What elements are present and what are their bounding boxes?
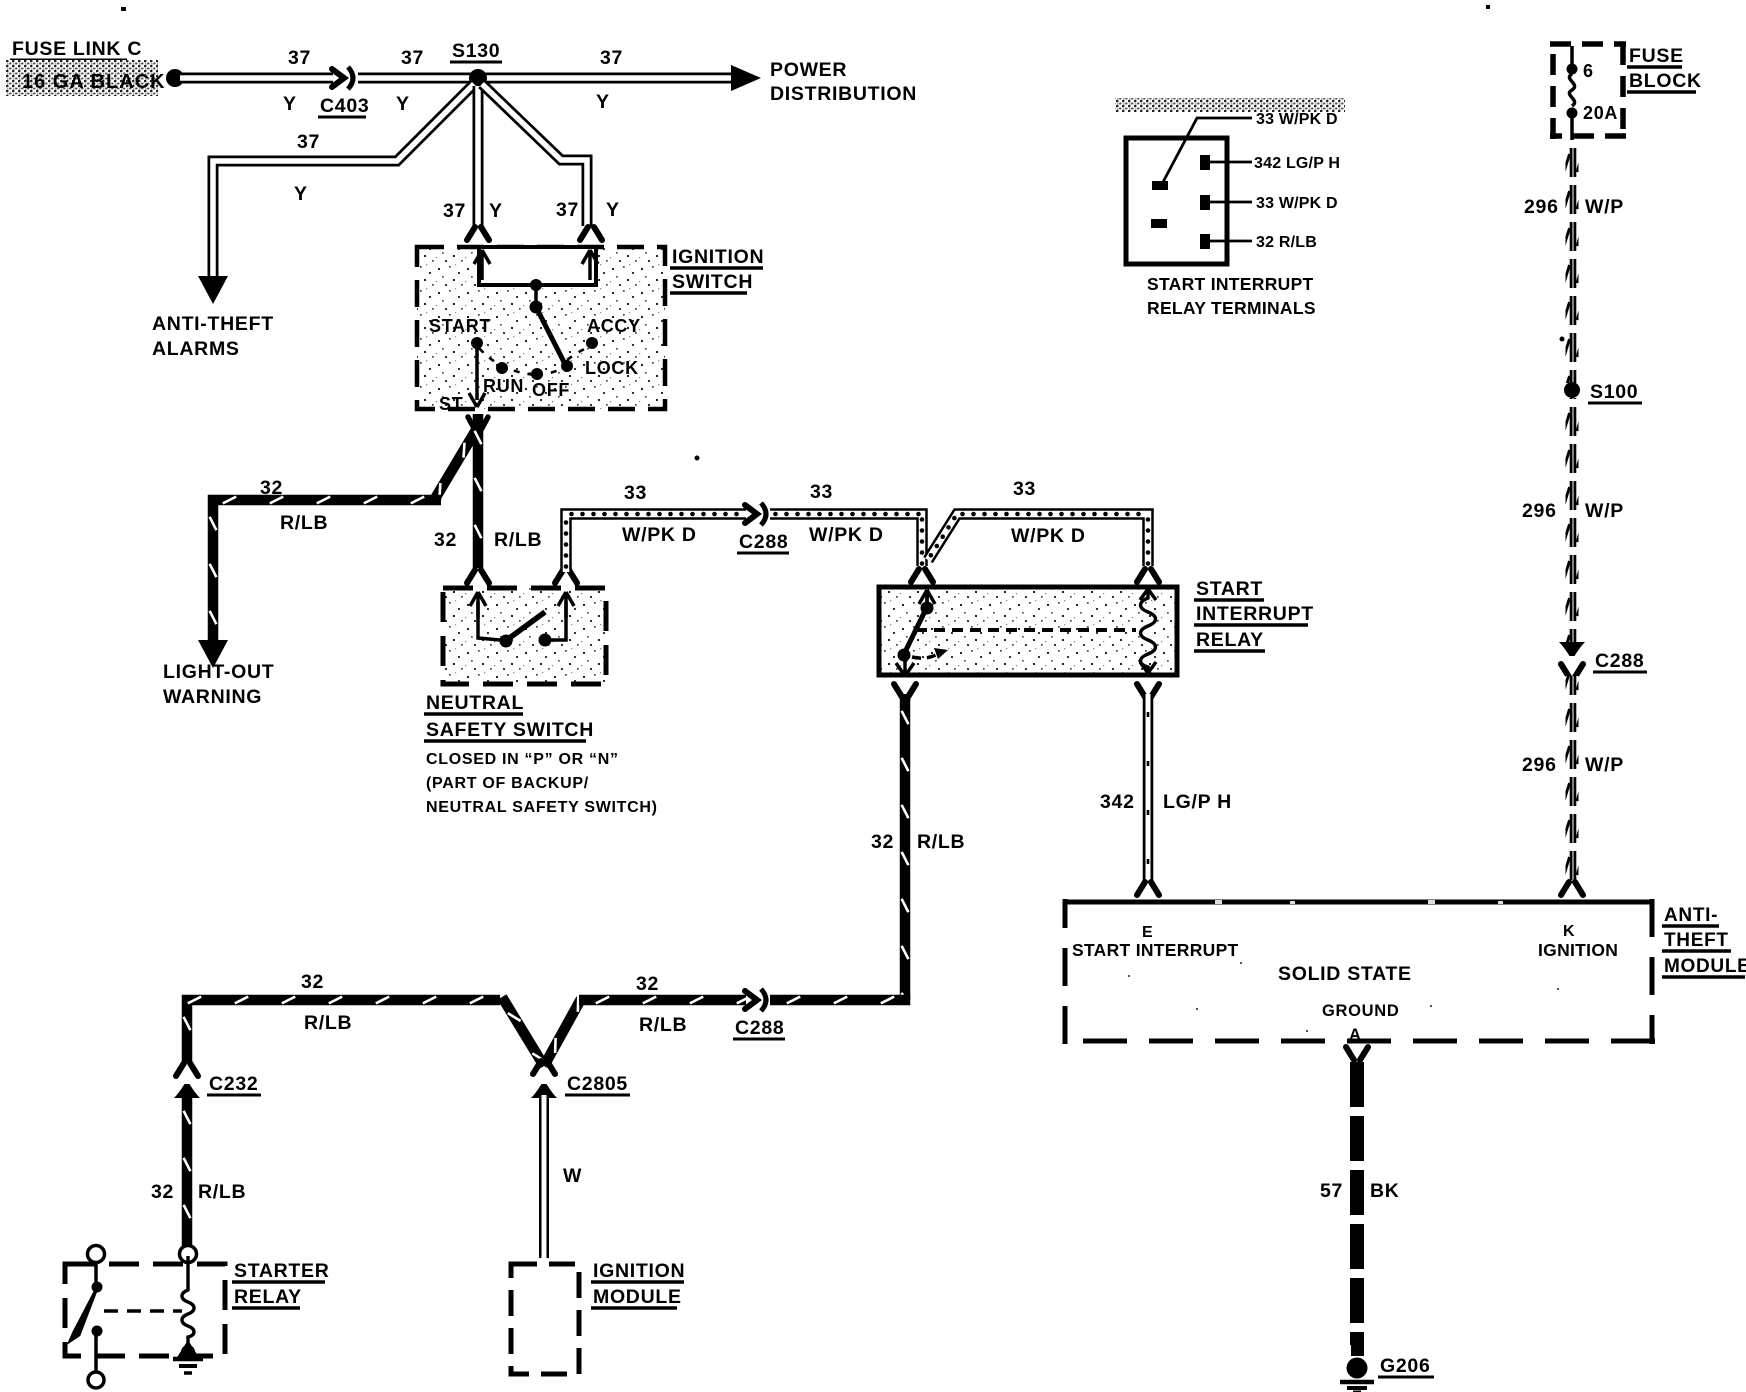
svg-text:R/LB: R/LB (639, 1014, 687, 1036)
relay entry arrow left (925, 592, 929, 614)
svg-text:BK: BK (1370, 1180, 1400, 1202)
wire 32 R/LB horizontal run to starter relay (187, 1000, 500, 1062)
svg-text:16 GA BLACK: 16 GA BLACK (22, 71, 166, 93)
svg-text:32: 32 (301, 971, 324, 993)
connector C2805 (533, 1061, 555, 1074)
svg-text:MODULE: MODULE (593, 1286, 682, 1308)
svg-text:LIGHT-OUT: LIGHT-OUT (163, 661, 274, 683)
svg-text:32: 32 (871, 831, 894, 853)
position dot RUN (496, 362, 508, 374)
splice S100 dot (1564, 382, 1580, 398)
svg-text:RELAY: RELAY (234, 1286, 302, 1308)
svg-text:Y: Y (294, 183, 308, 205)
stray dot top left (121, 7, 126, 11)
collar above module K pin (1561, 882, 1583, 895)
svg-text:S100: S100 (1590, 381, 1638, 403)
svg-text:START INTERRUPT: START INTERRUPT (1072, 940, 1239, 960)
relay output arrow down (903, 660, 907, 673)
svg-text:STARTER: STARTER (234, 1260, 330, 1282)
nss switch blade (508, 612, 545, 639)
wire 296 W/P C288 to module (1566, 676, 1579, 882)
connector C232 (176, 1063, 198, 1076)
wire 32 R/LB relay to horizontal run (900, 694, 911, 1000)
svg-text:33 W/PK D: 33 W/PK D (1256, 111, 1338, 128)
svg-text:IGNITION: IGNITION (672, 246, 764, 268)
stray dot top right (1486, 5, 1490, 9)
relay armature top dot (925, 592, 929, 604)
svg-text:33: 33 (624, 482, 647, 504)
svg-text:C2805: C2805 (567, 1073, 628, 1095)
svg-text:W/PK D: W/PK D (1011, 525, 1086, 547)
svg-text:POWER: POWER (770, 59, 847, 81)
halftone band above terminals box (1115, 98, 1345, 112)
leader line 33 top (1162, 118, 1252, 184)
nss left contact leg (478, 602, 500, 640)
terminal right 342 (1200, 155, 1210, 170)
connector C288 bottom (745, 991, 757, 1009)
relay lower contact dot (898, 649, 911, 662)
ignition switch feed arrow left (480, 252, 484, 280)
ignition module box (511, 1264, 579, 1374)
svg-text:S130: S130 (452, 40, 500, 62)
starter relay switch upper leg (94, 1262, 98, 1282)
svg-text:Y: Y (606, 199, 620, 221)
svg-text:NEUTRAL: NEUTRAL (426, 692, 524, 714)
svg-text:START: START (429, 316, 491, 336)
wire 37 Y branch to ignition switch START feed (473, 86, 484, 226)
svg-text:32 R/LB: 32 R/LB (1256, 234, 1317, 251)
terminal inner upper (1152, 181, 1168, 190)
svg-text:SWITCH: SWITCH (672, 271, 753, 293)
collar below ignition switch ST exit (468, 417, 488, 430)
svg-text:OFF: OFF (532, 380, 570, 400)
terminal right 32 (1200, 234, 1210, 249)
collar below relay coil output (1137, 684, 1159, 697)
collar above neutral safety switch (467, 570, 489, 583)
svg-text:Y: Y (596, 91, 610, 113)
svg-text:START INTERRUPT: START INTERRUPT (1147, 274, 1314, 294)
svg-text:FUSE: FUSE (1629, 45, 1684, 67)
starter relay internal dashed link (104, 1309, 182, 1313)
svg-text:GROUND: GROUND (1322, 1002, 1400, 1020)
svg-text:296: 296 (1522, 500, 1557, 522)
ground symbol G206 (1340, 1380, 1374, 1385)
svg-text:R/LB: R/LB (304, 1012, 352, 1034)
nss left contact dot (500, 635, 513, 648)
position dot OFF (531, 368, 543, 380)
collar above nss right exit (555, 570, 577, 583)
svg-text:R/LB: R/LB (280, 512, 328, 534)
svg-text:37: 37 (556, 199, 579, 221)
wire 33 W/PK D diagonal branch over relay (928, 514, 1148, 566)
svg-text:RELAY: RELAY (1196, 629, 1264, 651)
neutral safety switch box (443, 588, 606, 684)
start interrupt relay terminals box (1126, 138, 1227, 264)
svg-text:E: E (1142, 924, 1153, 941)
svg-text:LOCK: LOCK (585, 358, 639, 378)
svg-text:DISTRIBUTION: DISTRIBUTION (770, 83, 917, 105)
wire 37 Y branch to ignition switch ACCY feed (482, 84, 587, 226)
svg-text:THEFT: THEFT (1664, 930, 1729, 951)
starter relay terminal circle bottom left (88, 1372, 104, 1388)
collar above relay left coil entry (911, 569, 933, 582)
wire 296 W/P S100 to C288 (1566, 398, 1579, 644)
svg-text:C288: C288 (735, 1017, 784, 1039)
ignition switch inner contact rectangle (479, 247, 596, 285)
svg-text:INTERRUPT: INTERRUPT (1196, 603, 1314, 625)
starter relay blade (70, 1288, 97, 1341)
starter relay lower leg (94, 1334, 98, 1372)
connector C288 right side (1559, 642, 1585, 656)
svg-text:33 W/PK D: 33 W/PK D (1256, 195, 1338, 212)
relay moving contact stub (912, 655, 936, 658)
svg-text:RELAY TERMINALS: RELAY TERMINALS (1147, 298, 1316, 318)
arrow to power distribution (731, 65, 761, 91)
svg-text:ANTI-: ANTI- (1664, 905, 1718, 926)
starter relay terminal circle top right (180, 1246, 197, 1263)
wire 37 Y branch to anti-theft alarms (213, 84, 474, 278)
splice S130 dot (469, 69, 487, 87)
nss entry arrow right (564, 594, 568, 618)
svg-text:R/LB: R/LB (917, 831, 965, 853)
svg-text:WARNING: WARNING (163, 686, 262, 708)
svg-text:Y: Y (489, 200, 503, 222)
ignition switch box (417, 247, 665, 409)
starter relay lower contact dot (92, 1326, 103, 1337)
svg-text:37: 37 (401, 47, 424, 69)
svg-text:W: W (563, 1165, 582, 1187)
svg-text:37: 37 (288, 47, 311, 69)
svg-text:37: 37 (443, 200, 466, 222)
svg-text:32: 32 (434, 529, 457, 551)
svg-text:ANTI-THEFT: ANTI-THEFT (152, 313, 274, 335)
svg-text:NEUTRAL SAFETY SWITCH): NEUTRAL SAFETY SWITCH) (426, 799, 658, 816)
svg-text:W/P: W/P (1585, 500, 1624, 522)
svg-text:W/PK D: W/PK D (622, 524, 697, 546)
svg-text:K: K (1563, 923, 1575, 940)
connector C403 (332, 69, 344, 87)
svg-text:W/P: W/P (1585, 196, 1624, 218)
svg-text:20A: 20A (1583, 103, 1618, 123)
starter relay box (65, 1264, 225, 1356)
wire 32 R/LB ignition to light-out warning (436, 430, 476, 500)
ignition switch feed arrow right (588, 252, 592, 280)
label 16 GA BLACK with halftone band (6, 60, 158, 96)
terminal inner lower (1151, 219, 1167, 228)
relay coil bottom arrow (1140, 662, 1156, 673)
svg-text:MODULE: MODULE (1664, 956, 1746, 977)
leader line 342 (1210, 161, 1252, 164)
wire 32 R/LB C232 to starter relay (182, 1094, 193, 1246)
svg-text:(PART OF BACKUP/: (PART OF BACKUP/ (426, 775, 589, 792)
svg-text:SOLID STATE: SOLID STATE (1278, 963, 1412, 985)
svg-text:C288: C288 (739, 531, 788, 553)
terminal right 33 (1200, 195, 1210, 210)
wire 32 R/LB horizontal run relay side (579, 995, 746, 1006)
nss right contact leg (551, 602, 566, 640)
arrow to light-out warning (198, 640, 228, 668)
ignition switch position arc dashed (479, 347, 590, 375)
fuse block box (1553, 44, 1623, 136)
svg-text:C288: C288 (1595, 650, 1644, 672)
start interrupt relay box (879, 587, 1177, 675)
svg-text:32: 32 (260, 477, 283, 499)
wire 32 R/LB V down to C2805 (502, 997, 544, 1066)
relay coil (1141, 592, 1156, 670)
svg-text:32: 32 (636, 973, 659, 995)
svg-text:R/LB: R/LB (198, 1181, 246, 1203)
svg-text:SAFETY SWITCH: SAFETY SWITCH (426, 719, 594, 741)
collar at ignition switch left feed (467, 227, 489, 240)
ground G206 dot (1347, 1358, 1368, 1379)
svg-text:37: 37 (297, 131, 320, 153)
svg-text:CLOSED IN “P” OR “N”: CLOSED IN “P” OR “N” (426, 751, 619, 768)
wire 33 W/PK D from C288 to start interrupt relay (770, 514, 922, 566)
svg-text:37: 37 (600, 47, 623, 69)
collar at ignition switch right feed (580, 227, 602, 240)
stray dot center (695, 456, 700, 461)
svg-text:33: 33 (1013, 478, 1036, 500)
position dot LOCK (561, 360, 573, 372)
leader line 33 mid (1210, 201, 1252, 204)
relay switch blade (905, 611, 925, 652)
anti-theft module box (1065, 902, 1652, 1041)
ignition switch blade to LOCK (536, 307, 566, 366)
node fuse-link terminal dot (166, 69, 184, 87)
svg-text:ACCY: ACCY (587, 316, 641, 336)
svg-text:57: 57 (1320, 1180, 1343, 1202)
wire 296 W/P fuse block to S100 (1566, 140, 1579, 383)
fuse element (1570, 46, 1574, 64)
arrow to anti-theft alarms (198, 276, 228, 304)
svg-text:ST: ST (439, 394, 463, 414)
ground symbol starter relay (173, 1357, 203, 1362)
wire 37 Y main feed (fuse link to S130 to power distribution) (180, 73, 333, 84)
leader line 32 (1210, 240, 1252, 243)
wire 57 BK module to G206 (1350, 1062, 1364, 1345)
svg-text:BLOCK: BLOCK (1629, 70, 1702, 92)
starter relay upper contact dot (92, 1282, 103, 1293)
svg-text:33: 33 (810, 481, 833, 503)
collar above module E pin (1137, 882, 1159, 895)
svg-text:C232: C232 (209, 1073, 258, 1095)
svg-text:Y: Y (396, 93, 410, 115)
ground G206 stud (1351, 1344, 1364, 1356)
nss entry arrow left (476, 594, 480, 618)
wire W C2805 to ignition module (539, 1095, 549, 1258)
collar below module ground A pin (1346, 1047, 1368, 1060)
svg-text:IGNITION: IGNITION (593, 1260, 685, 1282)
svg-text:A: A (1349, 1026, 1362, 1044)
svg-text:RUN: RUN (483, 376, 524, 396)
starter relay terminal circle top left (88, 1246, 105, 1263)
svg-text:IGNITION: IGNITION (1538, 940, 1618, 960)
wire 33 W/PK D from nss to C288 (566, 514, 746, 572)
svg-text:32: 32 (151, 1181, 174, 1203)
svg-text:G206: G206 (1380, 1355, 1431, 1377)
ignition switch ST output line (475, 343, 479, 400)
svg-text:W/P: W/P (1585, 754, 1624, 776)
svg-text:342: 342 (1100, 791, 1135, 813)
connector C288 dotted wire (745, 505, 757, 523)
svg-text:C403: C403 (320, 95, 369, 117)
svg-text:6: 6 (1583, 61, 1594, 81)
svg-text:LG/P H: LG/P H (1163, 791, 1232, 813)
ignition switch rotor node (530, 279, 542, 291)
stray dot mid right (1560, 337, 1565, 342)
relay coil top arrow (1140, 589, 1156, 600)
wire 342 LG/P H relay to anti-theft module (1143, 694, 1154, 882)
svg-text:R/LB: R/LB (494, 529, 542, 551)
svg-text:FUSE LINK C: FUSE LINK C (12, 38, 142, 60)
svg-text:296: 296 (1522, 754, 1557, 776)
svg-text:ALARMS: ALARMS (152, 338, 240, 360)
svg-text:W/PK D: W/PK D (809, 524, 884, 546)
svg-text:296: 296 (1524, 196, 1559, 218)
collar below relay left output (894, 684, 916, 697)
starter relay coil (182, 1256, 194, 1344)
nss right contact dot (539, 634, 552, 647)
relay internal dashed link (916, 628, 1136, 632)
position dot START (471, 337, 483, 349)
collar above relay right entry (1137, 569, 1159, 582)
svg-text:342 LG/P H: 342 LG/P H (1254, 155, 1340, 172)
wire 32 R/LB ignition to neutral safety switch (473, 414, 484, 568)
svg-text:START: START (1196, 578, 1263, 600)
starter relay coil ground dot (176, 1340, 200, 1359)
svg-text:Y: Y (283, 93, 297, 115)
position dot ACCY (586, 337, 598, 349)
